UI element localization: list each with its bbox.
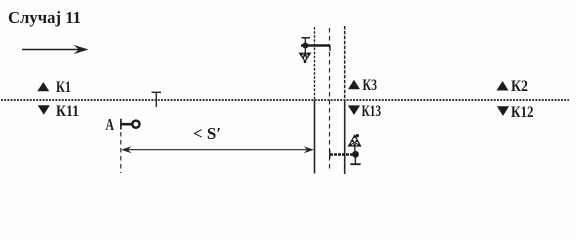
signal marker K11 (down triangle)	[38, 105, 50, 115]
svg-text:К2: К2	[511, 78, 528, 95]
svg-text:< S′: < S′	[193, 124, 221, 143]
svg-text:К11: К11	[56, 103, 79, 120]
vertical dashed centre line (x=329.5)	[329, 28, 331, 172]
svg-text:К1: К1	[56, 79, 71, 96]
svg-text:К3: К3	[363, 77, 378, 94]
vertical line left (x=314.5)	[314, 27, 316, 174]
signal marker K1 (up triangle)	[37, 82, 49, 91]
dashed drop line below key	[120, 132, 122, 173]
svg-text:Случај 11: Случај 11	[8, 8, 81, 27]
insulated joint tick	[152, 92, 162, 107]
direction arrow	[22, 45, 89, 54]
dimension line S'	[121, 146, 314, 153]
svg-text:A: A	[106, 115, 115, 134]
signal marker K3 (up triangle)	[348, 80, 360, 89]
signal marker K2 (up triangle)	[497, 81, 509, 91]
svg-text:К12: К12	[511, 104, 534, 121]
key symbol (release key at A)	[121, 119, 140, 130]
vertical line right (x=344.7)	[344, 26, 346, 174]
track line (dotted)	[1, 99, 569, 101]
svg-text:К13: К13	[362, 103, 382, 120]
signal marker K13 (down triangle)	[348, 105, 360, 115]
top signal (mast, base, chequered head)	[300, 38, 330, 63]
bottom signal (mast, base, chequered head)	[330, 134, 361, 164]
signal marker K12 (down triangle)	[497, 106, 509, 116]
